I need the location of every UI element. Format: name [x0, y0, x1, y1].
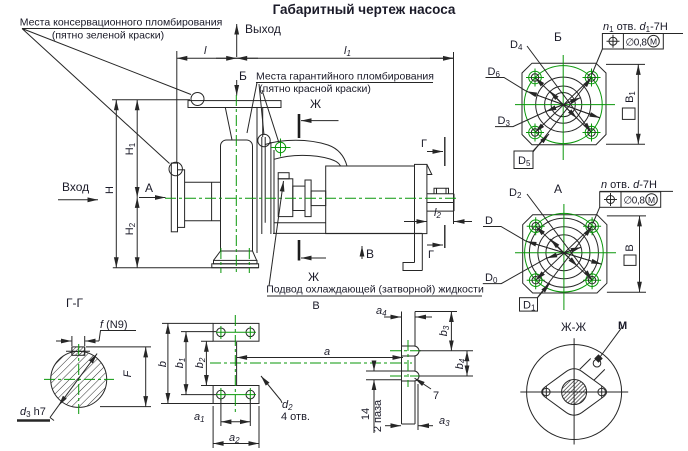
svg-text:Г-Г: Г-Г	[66, 296, 83, 310]
svg-text:14: 14	[360, 408, 372, 420]
svg-text:d3 h7: d3 h7	[20, 406, 46, 419]
svg-text:f (N9): f (N9)	[100, 319, 128, 331]
svg-text:H: H	[104, 186, 116, 194]
svg-text:Ж: Ж	[308, 270, 319, 284]
svg-text:В: В	[312, 300, 319, 312]
svg-text:Б: Б	[554, 30, 562, 44]
svg-text:В: В	[366, 247, 374, 261]
svg-text:Выход: Выход	[245, 22, 281, 36]
svg-text:7: 7	[433, 390, 439, 402]
svg-text:А: А	[554, 182, 562, 196]
svg-text:М: М	[648, 195, 655, 205]
svg-text:М: М	[650, 37, 657, 47]
svg-text:2 паза: 2 паза	[372, 399, 384, 432]
svg-text:B: B	[624, 244, 636, 251]
svg-text:Б: Б	[239, 69, 247, 83]
svg-text:Места консервационного пломбир: Места консервационного пломбирования	[20, 17, 223, 29]
svg-text:Вход: Вход	[62, 180, 89, 194]
svg-text:Ж-Ж: Ж-Ж	[561, 322, 586, 334]
svg-text:Места гарантийного пломбирован: Места гарантийного пломбирования	[256, 71, 434, 83]
svg-text:(пятно красной краски): (пятно красной краски)	[259, 83, 371, 95]
svg-text:4 отв.: 4 отв.	[281, 411, 310, 423]
svg-text:Г: Г	[421, 138, 427, 150]
svg-text:n1 отв. d1-7H: n1 отв. d1-7H	[603, 21, 668, 34]
svg-text:∅0,8: ∅0,8	[624, 196, 646, 207]
svg-text:Ж: Ж	[310, 97, 321, 111]
svg-text:(пятно зеленой краски): (пятно зеленой краски)	[52, 30, 164, 42]
svg-text:Подвод охлаждающей (затворной): Подвод охлаждающей (затворной) жидкости	[266, 284, 484, 296]
svg-text:Габаритный чертеж насоса: Габаритный чертеж насоса	[273, 2, 456, 17]
svg-text:a: a	[324, 346, 330, 358]
svg-text:А: А	[145, 181, 153, 195]
svg-text:∅0,8: ∅0,8	[626, 37, 648, 48]
svg-text:D: D	[485, 215, 493, 227]
svg-text:Г: Г	[428, 249, 434, 261]
svg-text:b: b	[157, 361, 169, 367]
svg-text:М: М	[618, 320, 627, 332]
svg-text:n отв. d-7H: n отв. d-7H	[601, 179, 657, 191]
